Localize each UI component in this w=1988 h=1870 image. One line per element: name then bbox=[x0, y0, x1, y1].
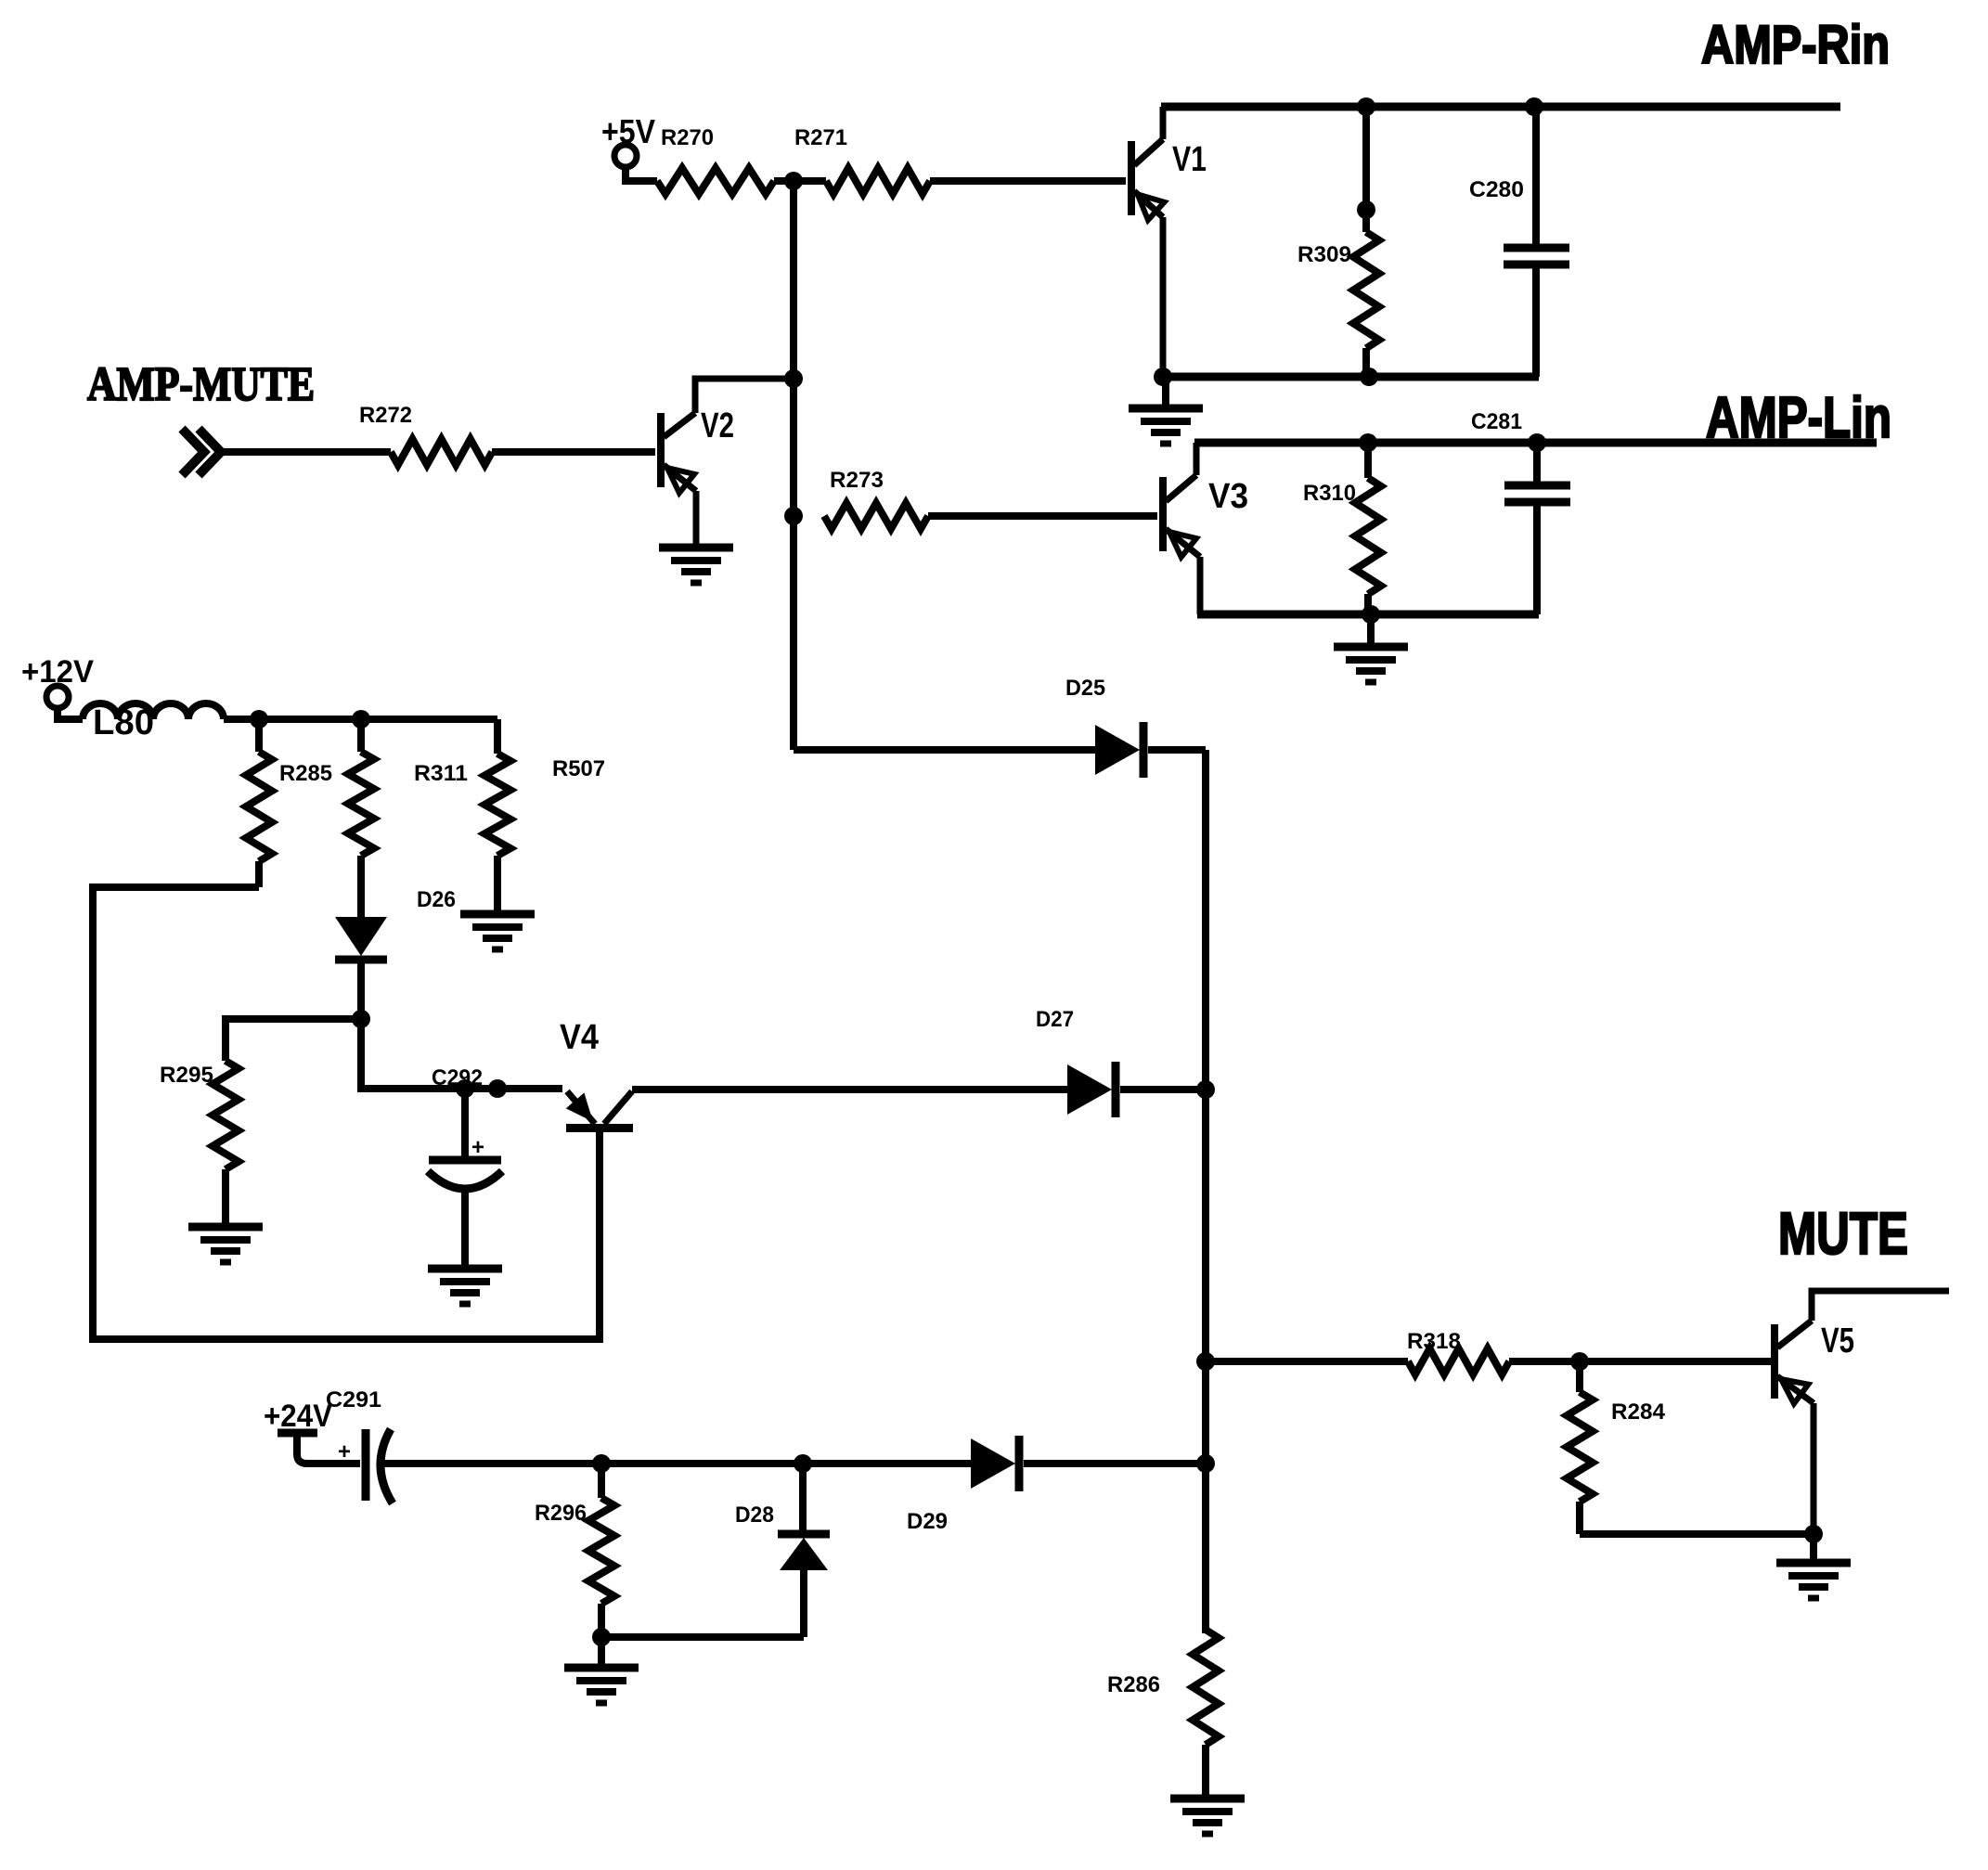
diode D28 bbox=[735, 1464, 830, 1637]
svg-text:V3: V3 bbox=[1208, 477, 1248, 516]
wire bbox=[361, 1019, 562, 1089]
svg-text:D28: D28 bbox=[735, 1502, 774, 1528]
node bbox=[1362, 605, 1380, 624]
inductor L80 bbox=[58, 703, 224, 742]
capacitor C280 bbox=[1469, 107, 1569, 377]
wire bbox=[222, 1169, 229, 1227]
svg-text:R311: R311 bbox=[414, 761, 468, 786]
svg-text:C280: C280 bbox=[1469, 177, 1524, 202]
svg-text:R272: R272 bbox=[359, 403, 412, 428]
svg-text:+24V: +24V bbox=[264, 1399, 332, 1434]
transistor V2 bbox=[657, 379, 790, 493]
ground (V3 block) bbox=[1334, 614, 1408, 682]
ground (V2) bbox=[659, 548, 733, 583]
transistor V5 bbox=[1771, 1291, 1949, 1404]
svg-text:D27: D27 bbox=[1036, 1007, 1074, 1032]
node bbox=[250, 710, 268, 729]
net label AMP-MUTE bbox=[87, 358, 315, 411]
wire bbox=[1362, 348, 1370, 377]
wire bbox=[928, 512, 1157, 520]
node bbox=[1360, 368, 1378, 386]
ground (V5) bbox=[1776, 1534, 1851, 1598]
wire bbox=[255, 861, 263, 887]
ground (R507) bbox=[460, 914, 535, 949]
svg-text:V4: V4 bbox=[560, 1018, 599, 1057]
net label MUTE bbox=[1778, 1200, 1908, 1267]
svg-text:C292: C292 bbox=[432, 1065, 483, 1090]
wire V3 emitter rail bbox=[1197, 557, 1539, 614]
svg-text:R309: R309 bbox=[1297, 242, 1351, 267]
svg-text:R318: R318 bbox=[1407, 1329, 1461, 1354]
node J8 bbox=[1570, 1352, 1589, 1371]
resistor R271 bbox=[794, 125, 930, 194]
net label AMP-Rin bbox=[1701, 15, 1890, 75]
wire bbox=[215, 448, 391, 456]
svg-text:D25: D25 bbox=[1065, 676, 1105, 701]
resistor R272 bbox=[359, 403, 492, 465]
svg-text:R295: R295 bbox=[160, 1063, 213, 1088]
wire V4 base loop bbox=[93, 887, 600, 1339]
wire AMP-Rin rail bbox=[1161, 103, 1840, 111]
resistor R310 bbox=[1303, 443, 1381, 614]
node bbox=[592, 1454, 611, 1473]
node bbox=[1359, 433, 1377, 452]
capacitor C281 bbox=[1471, 409, 1570, 614]
node bbox=[456, 1079, 474, 1098]
capacitor C292 bbox=[428, 1065, 502, 1269]
wire bbox=[930, 177, 1126, 185]
diode D29 bbox=[907, 1436, 1019, 1534]
svg-text:R296: R296 bbox=[535, 1501, 587, 1526]
diode D27 bbox=[1036, 1007, 1116, 1117]
wire bbox=[226, 1019, 361, 1061]
terminal +24V bbox=[264, 1399, 332, 1464]
svg-text:MUTE: MUTE bbox=[1778, 1200, 1908, 1267]
wire bbox=[1148, 746, 1206, 754]
node on R309 lead bbox=[1357, 200, 1375, 219]
ground (V1) bbox=[1129, 377, 1203, 444]
svg-text:AMP-MUTE: AMP-MUTE bbox=[87, 358, 315, 411]
wire bbox=[494, 719, 501, 754]
node J7 bbox=[1196, 1352, 1215, 1371]
node bbox=[592, 1628, 611, 1646]
resistor R270 bbox=[657, 125, 774, 194]
diode D26 bbox=[335, 887, 456, 960]
node bbox=[1804, 1525, 1823, 1543]
resistor R273 bbox=[824, 468, 928, 529]
wire +12V rail bbox=[224, 716, 497, 723]
svg-text:V2: V2 bbox=[701, 406, 734, 445]
wire bbox=[632, 1086, 1067, 1093]
capacitor C291 bbox=[307, 1387, 971, 1503]
node bbox=[1528, 433, 1546, 452]
wire AMP-Lin rail bbox=[1194, 439, 1877, 447]
wire bbox=[601, 1633, 804, 1641]
wire bbox=[1202, 1745, 1209, 1799]
wire main vertical bbox=[790, 181, 797, 750]
node bbox=[1154, 368, 1172, 386]
wire V2 emitter bbox=[693, 491, 700, 548]
node bbox=[352, 710, 370, 729]
ground (R296) bbox=[564, 1637, 639, 1703]
svg-text:C281: C281 bbox=[1471, 409, 1522, 434]
resistor R295 bbox=[160, 1061, 239, 1169]
svg-text:R285: R285 bbox=[279, 761, 332, 786]
terminal +12V bbox=[21, 654, 94, 708]
svg-text:R271: R271 bbox=[794, 125, 847, 150]
wire bbox=[1206, 1358, 1408, 1365]
wire bbox=[357, 856, 365, 917]
wire bbox=[1024, 1460, 1206, 1467]
resistor R318 bbox=[1407, 1329, 1509, 1374]
svg-text:R270: R270 bbox=[661, 125, 714, 150]
svg-text:D26: D26 bbox=[417, 887, 456, 912]
wire bbox=[1509, 1358, 1771, 1365]
terminal +5V bbox=[601, 112, 655, 167]
wire bbox=[494, 856, 501, 914]
svg-text:AMP-Rin: AMP-Rin bbox=[1701, 15, 1890, 75]
node bbox=[488, 1079, 507, 1098]
wire bbox=[357, 960, 365, 1019]
node J5 bbox=[1196, 1080, 1215, 1099]
node bbox=[794, 1454, 812, 1473]
transistor V4 bbox=[560, 1018, 633, 1132]
ground (C292) bbox=[428, 1269, 502, 1304]
resistor R309 bbox=[1297, 232, 1379, 348]
svg-text:R507: R507 bbox=[552, 756, 605, 781]
svg-text:R284: R284 bbox=[1611, 1399, 1666, 1425]
svg-text:R310: R310 bbox=[1303, 481, 1356, 506]
ground (R286) bbox=[1170, 1799, 1245, 1834]
svg-text:L80: L80 bbox=[93, 703, 154, 742]
svg-text:R273: R273 bbox=[830, 468, 884, 493]
node on rail (C280) bbox=[1525, 97, 1543, 116]
svg-text:V1: V1 bbox=[1172, 140, 1207, 179]
node J2 bbox=[784, 369, 803, 388]
svg-text:D29: D29 bbox=[907, 1509, 948, 1534]
ground (R295) bbox=[188, 1227, 263, 1262]
resistor R285 bbox=[246, 719, 332, 861]
svg-text:R286: R286 bbox=[1107, 1672, 1160, 1697]
wire main right vertical bbox=[1202, 750, 1209, 1633]
resistor R286 bbox=[1107, 1630, 1219, 1745]
wire bbox=[492, 448, 655, 456]
wire bbox=[1580, 1530, 1814, 1538]
transistor V1 bbox=[1128, 107, 1207, 220]
svg-text:V5: V5 bbox=[1821, 1322, 1854, 1361]
input chevrons bbox=[182, 429, 221, 475]
diode D25 bbox=[1065, 676, 1143, 778]
resistor R311 bbox=[348, 719, 468, 856]
net label AMP-Lin bbox=[1706, 386, 1891, 450]
wire V1 emitter rail bbox=[1160, 217, 1539, 377]
wire V5 emitter bbox=[1811, 1403, 1817, 1534]
wire bbox=[1362, 107, 1370, 232]
resistor R296 bbox=[535, 1464, 614, 1637]
node J1 bbox=[784, 172, 803, 190]
node J3 bbox=[784, 507, 803, 525]
resistor R507 bbox=[484, 754, 605, 856]
node J6 bbox=[1196, 1454, 1215, 1473]
wire bbox=[774, 177, 826, 185]
resistor R284 bbox=[1567, 1361, 1666, 1534]
svg-text:+5V: +5V bbox=[601, 112, 655, 150]
transistor V3 bbox=[1159, 443, 1248, 557]
svg-text:C291: C291 bbox=[326, 1387, 381, 1412]
wire bbox=[794, 746, 1095, 754]
wire bbox=[626, 167, 657, 181]
wire bbox=[1120, 1086, 1206, 1093]
node on rail (R309) bbox=[1357, 97, 1375, 116]
node J4 bbox=[352, 1010, 370, 1028]
svg-text:+12V: +12V bbox=[21, 654, 94, 690]
